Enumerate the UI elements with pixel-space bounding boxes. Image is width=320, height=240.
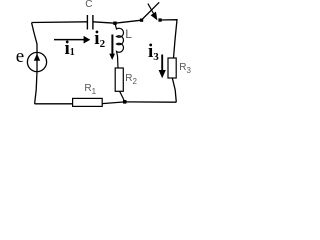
wire capacitor to node A bbox=[93, 22, 115, 23]
capacitor C right plate bbox=[92, 15, 94, 30]
bottom wire right corner to node B bbox=[125, 101, 177, 103]
source arrow head bbox=[34, 54, 40, 61]
wire R1 to bottom left corner bbox=[35, 103, 73, 105]
wire R3 to bottom right corner bbox=[172, 78, 176, 102]
label C bbox=[85, 0, 92, 10]
label e bbox=[16, 47, 24, 66]
left wire bottom corner up to source bbox=[35, 72, 37, 104]
label R3 bbox=[179, 63, 191, 75]
switch right contact dot bbox=[158, 18, 161, 21]
node B junction dot bbox=[123, 100, 127, 104]
wire switch to top right corner down to R3 bbox=[160, 20, 177, 58]
wire R2 to node B bbox=[120, 91, 125, 102]
capacitor C left plate bbox=[86, 15, 88, 30]
wire node B to R1 bbox=[102, 102, 124, 104]
wire node A to switch left contact bbox=[115, 20, 142, 23]
inductor L coil bbox=[115, 24, 123, 69]
resistor R3 box bbox=[168, 58, 176, 78]
switch motion arrow shaft bbox=[148, 4, 154, 14]
source through wire bbox=[32, 23, 37, 72]
resistor R1 box bbox=[73, 98, 103, 106]
label L bbox=[125, 28, 132, 40]
switch motion arrowhead bbox=[151, 12, 158, 21]
current arrow i2 bbox=[111, 35, 113, 55]
label i1 bbox=[65, 39, 75, 58]
source e circle bbox=[27, 52, 46, 71]
switch left contact dot bbox=[140, 19, 143, 22]
wire top from left corner to capacitor bbox=[32, 21, 88, 24]
current arrow i3 bbox=[161, 55, 163, 71]
label i2 bbox=[94, 29, 105, 48]
label i3 bbox=[148, 42, 159, 61]
label R2 bbox=[125, 74, 137, 86]
resistor R2 box bbox=[115, 68, 123, 91]
current arrow i1 bbox=[54, 39, 85, 41]
node A junction dot bbox=[113, 22, 116, 25]
label R1 bbox=[84, 84, 96, 96]
switch SW blade bbox=[142, 2, 159, 19]
